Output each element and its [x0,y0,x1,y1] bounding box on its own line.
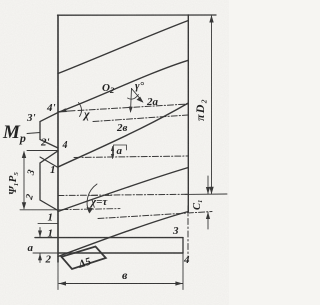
arrowhead width left [59,281,66,285]
left dim extension bottom [20,209,62,211]
overline tau [105,195,112,197]
left dimension line [23,152,25,209]
strip bottom left extension [33,252,58,254]
arrowhead C1dim up [206,212,210,219]
right vertical edge solid part [187,15,189,212]
small a measure double arrow [112,147,114,159]
bottom strip right edge [182,238,184,253]
thread profile quad lower [40,151,58,211]
a dim arrow lower [39,254,41,263]
a dim arrow upper [39,228,41,237]
arrowhead curved chi arrow [87,207,94,214]
arrowhead C1dim down [206,187,210,194]
arrowhead piD2 top [209,15,213,23]
right dim C1 lower arrow line [207,212,209,229]
arrowhead a-measure down [111,154,114,159]
gamma vertical arrow [131,89,132,112]
centerline C3 dash-dot [74,156,188,158]
arrowhead a upper [38,231,42,238]
bottom strip bottom edge [58,252,183,254]
arrowhead piD2 bottom [209,187,213,195]
overline chi [91,195,98,197]
centerline C4 dash-dot [58,194,188,195]
centerline C2 dash-dot [93,115,188,122]
arrowhead gamma slant [137,97,144,103]
right vertical edge dash-dot part [187,206,189,262]
bottom width dimension line [59,283,183,285]
Mp leader line [27,133,40,134]
dash-dot continuation at 209 [62,209,120,210]
delta5 parallelogram [62,247,106,270]
chi angle arc [79,103,82,117]
C1 dim upper extension line [185,193,227,195]
thread profile quad upper (Mp section) [40,113,58,149]
paper noise overlay [0,0,229,305]
helix diagonal D4 [58,168,188,212]
centerline C1 dash-dot [58,111,75,112]
right dim C1 upper arrow line [207,176,209,194]
helix diagonal D5 [58,212,188,257]
gamma slant arrow [132,89,143,102]
arrowhead width right [175,281,182,285]
gamma angle arc [128,95,139,100]
left extension to width dim [57,262,59,290]
arrowhead a lower [38,253,42,260]
arrowhead left dim bottom [22,202,26,210]
bottom strip top edge [35,237,183,239]
right dimension line piD2 [211,16,213,194]
centerline C1 dash-dot continued [78,104,188,111]
left vertical edge [57,15,59,262]
helix diagonal D3 [58,103,188,167]
centerline C5 dash-dot [98,212,212,219]
top line of development rectangle [58,14,217,16]
bottom width extension right [182,253,184,290]
arrowhead left dim top [22,151,26,159]
curved arrow at chi=tau [87,184,97,212]
arrowhead gamma vertical [129,107,133,114]
helix diagonal D1 [58,21,188,74]
helix diagonal D2 [58,60,188,112]
arrowhead a-measure up [111,146,114,151]
arrowhead D2 start [58,108,67,112]
a box at centerline [114,145,127,156]
extension line at level 1 [38,223,58,225]
left dim extension top [27,150,58,152]
crossing stroke of X [40,157,58,168]
